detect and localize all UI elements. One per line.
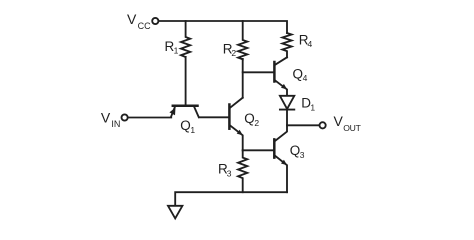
svg-text:1: 1	[310, 102, 315, 112]
label VIN	[101, 110, 121, 130]
node VCC terminal circle	[152, 18, 158, 24]
svg-text:2: 2	[231, 48, 236, 58]
wire Q3 base / R3 node	[243, 149, 274, 151]
transistor Q2	[229, 98, 243, 151]
wire R2 bottom to Q2 collector	[242, 59, 244, 98]
transistor Q1	[169, 106, 198, 118]
svg-text:2: 2	[254, 118, 259, 128]
wire R1 to Q1 base	[185, 57, 187, 104]
label R2	[223, 42, 237, 59]
transistor Q4	[274, 57, 287, 96]
svg-text:OUT: OUT	[343, 123, 361, 133]
resistor R4	[282, 33, 291, 57]
transistor Q3	[274, 125, 287, 192]
wire VOUT	[287, 124, 320, 126]
svg-text:V: V	[101, 110, 111, 126]
svg-text:Q: Q	[290, 143, 301, 158]
label Q3	[290, 143, 305, 160]
label VOUT	[334, 113, 362, 133]
label VCC	[127, 11, 151, 31]
label D1	[301, 96, 315, 113]
svg-text:Q: Q	[293, 66, 304, 81]
svg-text:IN: IN	[111, 119, 120, 129]
svg-text:Q: Q	[180, 118, 191, 133]
svg-text:1: 1	[190, 125, 195, 135]
node VOUT terminal circle	[320, 122, 326, 128]
svg-text:3: 3	[300, 150, 305, 160]
label R1	[165, 39, 179, 56]
svg-text:3: 3	[227, 168, 232, 178]
wire top VCC rail	[159, 21, 287, 33]
resistor R3	[238, 150, 247, 192]
label R4	[299, 32, 313, 49]
diode D1	[280, 96, 294, 126]
node VIN terminal circle	[122, 114, 128, 120]
svg-text:CC: CC	[138, 21, 151, 31]
label R3	[218, 162, 232, 179]
svg-text:Q: Q	[244, 111, 255, 126]
label Q2	[244, 111, 259, 128]
label Q4	[293, 66, 308, 83]
wire ground rail	[175, 192, 287, 206]
svg-text:V: V	[127, 11, 137, 27]
resistor R2	[238, 21, 247, 59]
resistor R1	[181, 21, 190, 57]
wire Q1 collector to Q2 base	[199, 116, 228, 118]
svg-text:4: 4	[303, 73, 308, 83]
label Q1	[180, 118, 195, 135]
wire Q4 base to R2 node	[243, 71, 274, 73]
svg-text:4: 4	[308, 39, 313, 49]
svg-text:V: V	[334, 113, 344, 129]
ground symbol	[168, 206, 182, 219]
wire VIN to Q1 emitter	[128, 117, 171, 119]
svg-text:1: 1	[174, 46, 179, 56]
